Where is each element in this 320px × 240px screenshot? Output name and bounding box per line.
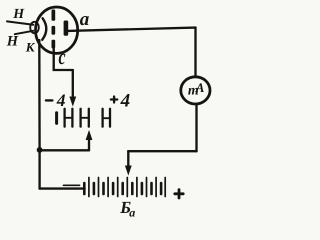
anode battery Ba cells [84, 178, 165, 197]
svg-text:а: а [129, 206, 135, 220]
milliammeter mA [181, 77, 210, 104]
grid C electrode (dashed bar) [52, 10, 56, 49]
svg-text:а: а [80, 9, 90, 30]
svg-text:Н: Н [6, 33, 19, 49]
svg-text:4: 4 [56, 90, 66, 110]
label -4 grid bias [46, 90, 66, 110]
wire junction down left side [38, 150, 40, 189]
label mA of meter [188, 80, 205, 98]
svg-text:А: А [195, 80, 205, 95]
grid bias battery (-4..+4) [57, 109, 110, 127]
wire lower-right horizontal [128, 150, 196, 152]
wire meter bottom to lower-right corner [195, 104, 197, 151]
cathode K electrode arc [42, 18, 46, 40]
svg-text:4: 4 [120, 91, 131, 112]
cathode tap arrow (up, onto grid battery) [86, 132, 91, 151]
wire bottom to anode battery minus [40, 187, 85, 189]
triode tube V1 envelope [36, 7, 78, 53]
grid battery tap arrow [70, 70, 75, 105]
heater filament [30, 22, 39, 33]
label +4 grid bias [111, 91, 130, 112]
heater lead top [7, 21, 33, 24]
anode a electrode (bar) [64, 21, 69, 36]
label Ba (anode battery) [119, 198, 135, 220]
svg-text:с: с [59, 44, 66, 69]
junction node (cathode/battery) [37, 147, 43, 153]
wire anode to meter (top) [68, 28, 196, 31]
wire cathode lead down from tube [38, 40, 41, 150]
svg-text:Н: Н [12, 7, 25, 22]
heater lead bottom [15, 31, 33, 34]
wire right vertical to meter top [194, 28, 196, 77]
anode battery tap arrow [126, 151, 131, 174]
svg-text:К: К [25, 40, 36, 55]
wire grid lead down from tube [54, 49, 73, 71]
wire junction to cathode tap [40, 149, 89, 151]
label plus of anode battery [175, 190, 183, 198]
label minus of anode battery [64, 184, 80, 186]
